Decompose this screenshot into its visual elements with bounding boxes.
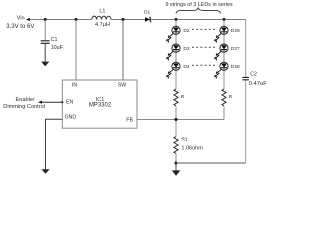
svg-text:FB: FB bbox=[126, 117, 133, 123]
svg-text:C1: C1 bbox=[51, 37, 58, 43]
svg-text:R: R bbox=[181, 94, 185, 100]
svg-text:10uF: 10uF bbox=[51, 45, 64, 51]
wire C1 branch bbox=[44, 20, 46, 41]
svg-text:D1: D1 bbox=[144, 10, 151, 16]
svg-text:1.06ohm: 1.06ohm bbox=[181, 145, 203, 151]
inductor L1 bbox=[92, 16, 111, 19]
wire dashed row 2 bbox=[192, 46, 216, 48]
svg-text:3.3V to 6V: 3.3V to 6V bbox=[6, 24, 34, 30]
wire EN to enable control bbox=[42, 101, 62, 103]
wire IN branch bbox=[75, 20, 77, 81]
svg-text:D28: D28 bbox=[231, 64, 240, 70]
junction dot R1 bottom bbox=[175, 162, 178, 165]
svg-text:D2: D2 bbox=[183, 28, 190, 34]
diode D1 (schottky) bbox=[145, 17, 150, 22]
junction dot right LED string top bbox=[223, 18, 226, 21]
wire right rail C2 upper bbox=[245, 20, 247, 77]
LED D4 bbox=[167, 62, 181, 79]
ground arrow below C1 bbox=[41, 62, 49, 67]
svg-text:R1: R1 bbox=[181, 137, 188, 143]
svg-text:Enable/: Enable/ bbox=[16, 97, 35, 103]
svg-text:9 strings of 3 LEDs in series: 9 strings of 3 LEDs in series bbox=[165, 2, 232, 8]
wire right rail C2 lower bbox=[245, 80, 247, 163]
wire C1 to ground bbox=[44, 44, 46, 62]
junction dot SW branch bbox=[122, 18, 125, 21]
resistor R (left string) bbox=[174, 89, 178, 106]
LED D2 bbox=[167, 26, 181, 42]
svg-text:C2: C2 bbox=[250, 72, 257, 78]
LED D28 bbox=[215, 62, 229, 79]
brace over LED strings bbox=[176, 8, 221, 13]
svg-text:R: R bbox=[229, 94, 233, 100]
ground arrow below R1 bbox=[175, 163, 177, 171]
wire dashed row 3 bbox=[192, 64, 216, 66]
wire top rail from L1 to right corner bbox=[111, 19, 246, 21]
junction dot IN branch bbox=[75, 18, 78, 21]
LED D27 bbox=[215, 44, 229, 61]
svg-text:L1: L1 bbox=[99, 9, 105, 15]
capacitor C1 bbox=[41, 41, 50, 44]
wire FB to sense node bbox=[137, 119, 224, 121]
capacitor C2 bbox=[242, 77, 249, 79]
svg-text:D4: D4 bbox=[183, 64, 190, 70]
svg-text:Vin: Vin bbox=[17, 16, 25, 22]
svg-text:0.47uF: 0.47uF bbox=[249, 81, 268, 87]
svg-text:Dimming Control: Dimming Control bbox=[3, 104, 45, 110]
wire GND pin to ground bbox=[46, 119, 63, 169]
ground arrow below GND bbox=[41, 169, 49, 174]
wire bottom rail to C2 bbox=[176, 162, 246, 164]
node EN arrow bbox=[38, 101, 42, 104]
svg-text:IN: IN bbox=[72, 82, 77, 88]
wire left LED string vertical bbox=[175, 20, 177, 164]
svg-text:MP3302: MP3302 bbox=[89, 103, 112, 109]
junction dot left LED string top bbox=[175, 18, 178, 21]
wire top rail from Vin arrow to L1 bbox=[30, 19, 92, 21]
junction dot FB node bbox=[175, 118, 178, 121]
wire dashed row 1 bbox=[192, 28, 216, 30]
op IC1 MP3302 box bbox=[62, 80, 137, 128]
LED D26 bbox=[215, 26, 229, 42]
resistor R (right string) bbox=[222, 89, 226, 106]
svg-text:D27: D27 bbox=[231, 46, 240, 52]
svg-text:4.7µH: 4.7µH bbox=[95, 22, 110, 28]
svg-text:D3: D3 bbox=[183, 46, 190, 52]
svg-text:EN: EN bbox=[66, 99, 73, 105]
svg-text:D26: D26 bbox=[231, 28, 240, 34]
node Vin input terminal arrow bbox=[26, 18, 30, 21]
wire SW branch bbox=[122, 20, 124, 81]
LED D3 bbox=[167, 44, 181, 61]
wire right LED string vertical bbox=[223, 20, 225, 120]
svg-text:SW: SW bbox=[118, 82, 126, 88]
resistor R1 bbox=[174, 137, 178, 154]
junction dot C1 branch bbox=[44, 18, 47, 21]
svg-text:GND: GND bbox=[65, 115, 77, 121]
